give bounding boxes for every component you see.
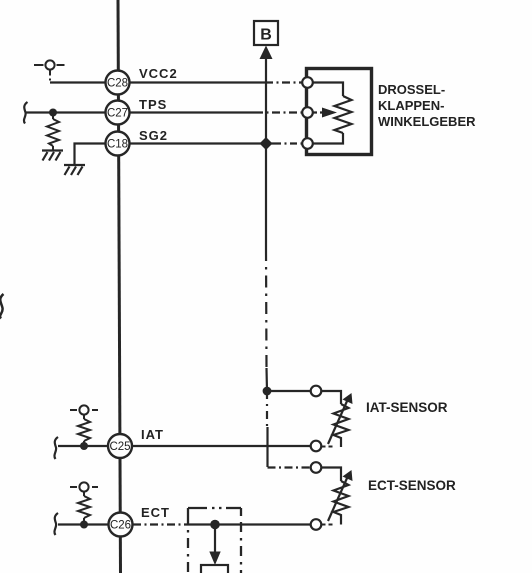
svg-text:B: B <box>260 27 272 44</box>
connector C18 <box>106 132 130 156</box>
arrow variable (diagonal) <box>328 400 348 444</box>
aux ECT wire break symbol <box>54 513 58 535</box>
svg-text:TPS: TPS <box>139 97 167 112</box>
connector C28 <box>106 71 130 95</box>
component throttle sensor box (DROSSELKLAPPENWINKELGEBER) <box>307 69 372 155</box>
svg-text:ECT-SENSOR: ECT-SENSOR <box>368 478 456 493</box>
wire IAT sensor top branch <box>267 390 311 392</box>
wire to element <box>322 468 342 482</box>
svg-text:WINKELGEBER: WINKELGEBER <box>378 114 476 129</box>
node SG2 junction (diamond) <box>260 137 273 150</box>
aux IAT wire break symbol <box>54 437 58 459</box>
pin top circle <box>311 462 322 473</box>
svg-text:ECT: ECT <box>141 505 170 520</box>
arrow up into B <box>260 46 273 60</box>
pin top circle <box>311 386 322 397</box>
svg-text:C26: C26 <box>110 520 131 532</box>
node ECT pull junction dot <box>80 521 88 529</box>
wire branch down from ECT junction <box>214 525 216 553</box>
svg-text:IAT-SENSOR: IAT-SENSOR <box>366 400 448 415</box>
pin 3 terminal circle SG2 <box>302 138 313 149</box>
wire pot bottom inside throttle box <box>312 133 343 144</box>
connector C27 <box>106 101 130 125</box>
wire ECU main bus vertical line <box>118 0 121 573</box>
svg-text:C18: C18 <box>107 139 128 151</box>
pin 1 terminal circle VCC2 <box>302 77 313 88</box>
svg-text:KLAPPEN-: KLAPPEN- <box>378 98 444 113</box>
aux VCC2 test point: dash-dot line with terminal circle <box>34 60 65 80</box>
resistor IAT pull-up <box>78 415 90 447</box>
wire IAT (C25 to IAT sensor bottom pin) <box>58 445 311 447</box>
component IAT sensor <box>311 386 353 452</box>
connector B box <box>254 21 278 45</box>
wire pot top inside throttle box <box>312 83 343 97</box>
wire SG2 to ground <box>75 144 106 166</box>
ground for SG2 <box>64 165 85 175</box>
ground under TPS resistor <box>42 151 63 161</box>
wire VCC2 (C28 to throttle sensor pin 1, solid then dash-dot) <box>50 81 303 83</box>
pin bottom circle <box>311 519 322 530</box>
connector branch box (dash-dot boundary) <box>188 508 241 573</box>
arrow variable (diagonal) <box>328 477 348 521</box>
svg-text:IAT: IAT <box>141 427 164 442</box>
arrow down to lower connector <box>209 552 220 566</box>
resistor ECT pull-up <box>78 492 90 525</box>
wire TPS (C27 to throttle sensor pin 2, solid then dash-dot) <box>26 111 303 113</box>
component ECT sensor <box>311 462 353 530</box>
pin bottom circle <box>311 441 322 452</box>
wire ECT (C26 to ECT sensor bottom pin) <box>58 523 311 525</box>
wiper arrow of potentiometer <box>313 108 337 118</box>
connector C25 <box>108 434 132 458</box>
aux IAT test point circle with dashes <box>70 405 98 414</box>
wire ECT sensor top branch (dash-dot) <box>268 466 312 468</box>
resistor element (zigzag) <box>334 481 349 525</box>
resistor element (zigzag) <box>334 404 349 447</box>
svg-text:DROSSEL-: DROSSEL- <box>378 82 445 97</box>
connector C26 <box>109 513 133 537</box>
wire dashes bottom <box>322 446 335 448</box>
label DROSSEL-KLAPPEN-WINKELGEBER <box>378 82 476 129</box>
resistor pot element R (zigzag) <box>335 96 352 133</box>
wire dashes bottom <box>322 524 335 526</box>
wire SG2 (C18 to throttle sensor pin 3, solid then dash-dot) <box>105 142 303 144</box>
wire to element <box>322 391 342 404</box>
pin 2 terminal circle TPS <box>302 107 313 118</box>
svg-text:C25: C25 <box>109 441 130 453</box>
aux ECT test point circle with dashes <box>70 482 98 491</box>
svg-text:VCC2: VCC2 <box>139 66 178 81</box>
svg-text:SG2: SG2 <box>139 128 168 143</box>
resistor TPS pull-down <box>47 113 59 151</box>
wire B net vertical (arrow to SG2 junction, down to IAT/ECT branches) <box>266 57 268 467</box>
node ECT branch junction dot <box>210 520 220 530</box>
svg-text:C28: C28 <box>107 78 128 90</box>
svg-text:C27: C27 <box>107 108 128 120</box>
aux TPS wire break symbol <box>24 102 28 124</box>
wire break at left page edge <box>0 294 3 319</box>
node TPS pull junction dot <box>49 109 57 117</box>
node IAT pull junction dot <box>80 442 88 450</box>
node IAT branch junction dot <box>263 387 272 396</box>
connector box at bottom edge (clipped) <box>201 565 228 573</box>
